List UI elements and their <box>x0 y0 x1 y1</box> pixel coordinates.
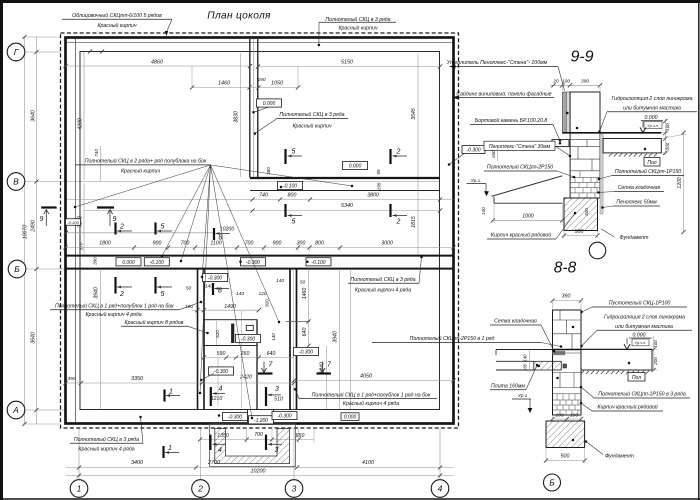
svg-text:Сетка кладочная: Сетка кладочная <box>494 319 537 325</box>
svg-text:5: 5 <box>292 219 296 226</box>
svg-text:590: 590 <box>217 351 226 357</box>
svg-text:390: 390 <box>581 79 589 85</box>
svg-text:Бортовой камень БР.100.20.8: Бортовой камень БР.100.20.8 <box>475 117 548 124</box>
svg-text:0.000: 0.000 <box>263 101 276 107</box>
svg-text:2: 2 <box>197 484 203 494</box>
svg-text:-0.300: -0.300 <box>466 148 480 154</box>
svg-text:600: 600 <box>491 150 496 158</box>
svg-text:3545: 3545 <box>411 108 417 120</box>
svg-text:-0.300: -0.300 <box>208 276 222 282</box>
svg-text:2: 2 <box>396 219 401 226</box>
svg-text:Красный кирпич 4 ряда: Красный кирпич 4 ряда <box>78 446 134 453</box>
svg-text:800: 800 <box>315 241 324 247</box>
svg-text:1460: 1460 <box>302 288 308 300</box>
svg-text:0.000: 0.000 <box>349 164 362 170</box>
svg-text:Пеноплекс-"Стена" 30мм: Пеноплекс-"Стена" 30мм <box>489 144 551 150</box>
svg-text:Ур.з.: Ур.з. <box>471 178 481 183</box>
svg-text:-1.200: -1.200 <box>254 418 268 424</box>
svg-text:20: 20 <box>552 79 559 85</box>
svg-text:50: 50 <box>186 286 192 292</box>
svg-text:Пол: Пол <box>632 375 641 381</box>
svg-text:Полнотелый СКЦ в 1 ряд+полубло: Полнотелый СКЦ в 1 ряд+полублок 1 ряд на… <box>312 392 431 399</box>
svg-text:1815: 1815 <box>411 216 417 228</box>
svg-text:3: 3 <box>275 447 279 454</box>
svg-text:5: 5 <box>292 149 296 156</box>
svg-text:300: 300 <box>297 241 306 247</box>
svg-text:2490: 2490 <box>31 220 37 233</box>
svg-text:2: 2 <box>396 149 401 156</box>
svg-text:4100: 4100 <box>362 460 374 466</box>
svg-text:-0.300: -0.300 <box>299 350 313 356</box>
svg-text:Гидроизоляция 2 слоя линокрома: Гидроизоляция 2 слоя линокрома <box>604 315 685 321</box>
svg-text:520: 520 <box>215 330 220 338</box>
svg-text:900: 900 <box>273 241 282 247</box>
svg-text:510: 510 <box>274 397 283 403</box>
svg-text:4: 4 <box>219 386 223 393</box>
svg-text:А: А <box>12 405 19 415</box>
svg-text:8: 8 <box>218 288 222 295</box>
svg-text:8-8: 8-8 <box>554 260 577 277</box>
svg-text:190: 190 <box>555 413 563 419</box>
svg-text:9-9: 9-9 <box>570 49 593 66</box>
svg-text:195: 195 <box>377 182 382 190</box>
svg-text:5150: 5150 <box>341 60 353 66</box>
svg-text:Сайдинг виниловый, панели фаса: Сайдинг виниловый, панели фасадные <box>456 91 551 98</box>
svg-text:Красный кирпич 8 рядов: Красный кирпич 8 рядов <box>125 319 184 326</box>
svg-text:Сетка кладочная: Сетка кладочная <box>618 185 661 191</box>
svg-text:Плита 160мм: Плита 160мм <box>491 384 525 390</box>
svg-text:Утеплитель Пеноплекс-"Стена"-: Утеплитель Пеноплекс-"Стена"- 100мм <box>447 60 548 66</box>
svg-text:3400: 3400 <box>131 460 143 466</box>
svg-text:Красный кирпич: Красный кирпич <box>292 123 331 130</box>
svg-text:740: 740 <box>259 193 268 199</box>
svg-text:Полнотелый СКЦпп-1Р150 в 3 ряд: Полнотелый СКЦпп-1Р150 в 3 ряда <box>598 391 686 398</box>
svg-text:1210: 1210 <box>211 396 223 402</box>
svg-text:Ур.ч.п.: Ур.ч.п. <box>635 341 646 345</box>
svg-text:или битумная мастика: или битумная мастика <box>623 106 681 112</box>
svg-text:700: 700 <box>254 432 263 438</box>
svg-text:-0.300: -0.300 <box>214 369 228 375</box>
svg-text:1: 1 <box>168 445 172 452</box>
svg-text:Красный кирпич: Красный кирпич <box>97 22 136 29</box>
svg-text:4050: 4050 <box>360 374 372 380</box>
svg-text:1050: 1050 <box>271 81 283 87</box>
svg-text:или битумная мастика: или битумная мастика <box>615 324 673 330</box>
svg-text:Фундамент: Фундамент <box>605 454 635 460</box>
svg-text:200: 200 <box>653 357 658 366</box>
svg-text:640: 640 <box>267 351 276 357</box>
svg-text:120: 120 <box>258 291 266 297</box>
svg-text:-0.100: -0.100 <box>150 260 164 266</box>
svg-text:3: 3 <box>292 484 297 494</box>
svg-text:3: 3 <box>275 386 279 393</box>
svg-text:Полнотелый СКЦпп-2Р150 в 1 ря: Полнотелый СКЦпп-2Р150 в 1 ряд <box>410 335 495 342</box>
svg-text:740: 740 <box>94 149 100 157</box>
svg-text:500: 500 <box>561 454 570 460</box>
svg-text:-0.300: -0.300 <box>241 337 255 343</box>
svg-text:4: 4 <box>218 447 222 454</box>
svg-text:Красный кирпич 4 ряда: Красный кирпич 4 ряда <box>86 311 142 318</box>
svg-text:Полнотелый СКЦ в 3 ряда: Полнотелый СКЦ в 3 ряда <box>279 111 344 118</box>
svg-text:План цоколя: План цоколя <box>207 11 271 22</box>
svg-text:Облицовочный СКЦтп-6/100 5 ряд: Облицовочный СКЦтп-6/100 5 рядов <box>72 12 162 19</box>
svg-text:-0.100: -0.100 <box>311 260 325 266</box>
svg-text:Ур.з: Ур.з <box>518 393 528 399</box>
svg-text:800: 800 <box>288 193 297 199</box>
svg-text:95: 95 <box>376 169 381 175</box>
svg-text:640: 640 <box>302 328 308 337</box>
svg-text:10200: 10200 <box>251 469 266 475</box>
svg-text:4200: 4200 <box>78 118 84 130</box>
svg-text:Полнотелый СКЦ в 2 ряда+ ряд п: Полнотелый СКЦ в 2 ряда+ ряд полублока н… <box>85 158 207 165</box>
svg-text:140: 140 <box>236 291 244 297</box>
svg-text:Полнотелый СКЦ в 3 ряда: Полнотелый СКЦ в 3 ряда <box>74 436 139 443</box>
svg-text:190: 190 <box>570 413 578 419</box>
svg-text:500: 500 <box>575 229 584 235</box>
svg-text:Полнотелый СКЦ в 3 ряда: Полнотелый СКЦ в 3 ряда <box>325 16 390 23</box>
svg-text:3640: 3640 <box>31 332 37 344</box>
svg-text:Полнотелый СКЦ в 3 ряда: Полнотелый СКЦ в 3 ряда <box>350 276 415 283</box>
svg-text:-0.100: -0.100 <box>283 184 297 190</box>
svg-text:В: В <box>13 177 19 187</box>
svg-text:140: 140 <box>523 354 528 362</box>
svg-text:-0.300: -0.300 <box>277 414 291 420</box>
svg-text:1: 1 <box>169 389 173 396</box>
svg-text:Пеноплекс 50мм: Пеноплекс 50мм <box>616 200 657 206</box>
svg-text:Б: Б <box>549 478 555 488</box>
svg-text:Красный кирпич 4 ряда: Красный кирпич 4 ряда <box>343 400 399 407</box>
svg-text:5: 5 <box>161 291 165 298</box>
svg-text:100: 100 <box>653 340 658 348</box>
svg-text:4: 4 <box>438 484 443 494</box>
svg-text:Б: Б <box>14 264 20 274</box>
svg-text:160: 160 <box>523 363 528 371</box>
svg-text:0.000: 0.000 <box>645 115 658 121</box>
svg-text:100: 100 <box>562 79 570 85</box>
svg-text:3940: 3940 <box>93 287 99 299</box>
svg-text:400: 400 <box>584 208 589 216</box>
svg-text:3830: 3830 <box>234 111 240 123</box>
svg-text:9: 9 <box>113 216 117 223</box>
svg-text:50: 50 <box>300 280 306 286</box>
svg-text:370: 370 <box>79 242 84 250</box>
svg-text:900: 900 <box>153 241 162 247</box>
svg-text:Пустотелый СКЦ-1Р100: Пустотелый СКЦ-1Р100 <box>609 300 671 307</box>
svg-text:190: 190 <box>257 77 265 83</box>
svg-text:3800: 3800 <box>367 193 379 199</box>
svg-text:Фундамент: Фундамент <box>620 235 650 241</box>
svg-text:Полнотелый СКЦпп-2Р150: Полнотелый СКЦпп-2Р150 <box>487 164 553 171</box>
svg-text:Гидроизоляция 2 слоя линокрома: Гидроизоляция 2 слоя линокрома <box>612 96 693 102</box>
svg-text:-0.300: -0.300 <box>228 415 242 421</box>
svg-text:0.000: 0.000 <box>344 415 357 421</box>
svg-text:10200: 10200 <box>220 227 235 233</box>
svg-text:10070: 10070 <box>23 225 29 240</box>
svg-text:190: 190 <box>185 304 193 310</box>
svg-text:200: 200 <box>665 142 670 151</box>
svg-text:Кирпич красный рядовой: Кирпич красный рядовой <box>491 232 551 239</box>
svg-text:2: 2 <box>119 224 124 231</box>
svg-text:Красный кирпич: Красный кирпич <box>121 168 160 175</box>
svg-text:920: 920 <box>265 299 270 307</box>
svg-text:9: 9 <box>40 216 44 223</box>
svg-text:4860: 4860 <box>151 60 163 66</box>
svg-text:0.000: 0.000 <box>633 333 646 339</box>
svg-text:Полнотелый СКЦ в 1 ряд+полубло: Полнотелый СКЦ в 1 ряд+полублок 1 ряд на… <box>55 303 174 310</box>
svg-text:Пол: Пол <box>647 160 656 166</box>
svg-text:2: 2 <box>119 291 124 298</box>
svg-text:1: 1 <box>77 484 82 494</box>
svg-text:390: 390 <box>93 257 98 265</box>
svg-text:140: 140 <box>276 278 284 284</box>
svg-text:Полнотелый СКЦпп-1Р150: Полнотелый СКЦпп-1Р150 <box>615 168 681 175</box>
svg-text:140: 140 <box>271 333 276 341</box>
svg-text:3000: 3000 <box>381 241 393 247</box>
svg-text:390: 390 <box>562 294 571 300</box>
svg-text:Красный кирпич 4 ряда: Красный кирпич 4 ряда <box>355 287 411 294</box>
svg-text:Ур.ч.п.: Ур.ч.п. <box>647 124 658 128</box>
svg-text:3350: 3350 <box>131 376 143 382</box>
svg-text:1460: 1460 <box>218 81 230 87</box>
svg-text:Кирпич красный рядовой: Кирпич красный рядовой <box>597 404 657 411</box>
svg-text:3940: 3940 <box>333 331 339 343</box>
svg-text:0.000: 0.000 <box>122 260 135 266</box>
svg-text:100: 100 <box>665 123 670 131</box>
svg-text:-0.100: -0.100 <box>67 220 79 225</box>
svg-text:650: 650 <box>296 433 305 439</box>
svg-text:3640: 3640 <box>31 110 37 122</box>
svg-text:390: 390 <box>67 376 75 382</box>
svg-text:Красный кирпич: Красный кирпич <box>338 25 377 32</box>
svg-text:1800: 1800 <box>99 241 111 247</box>
svg-text:700: 700 <box>245 241 254 247</box>
svg-text:1000: 1000 <box>522 214 534 220</box>
svg-text:700: 700 <box>181 241 190 247</box>
svg-text:1200: 1200 <box>677 177 683 188</box>
svg-text:5: 5 <box>161 224 165 231</box>
svg-text:100: 100 <box>481 207 486 215</box>
svg-text:5340: 5340 <box>341 203 353 209</box>
